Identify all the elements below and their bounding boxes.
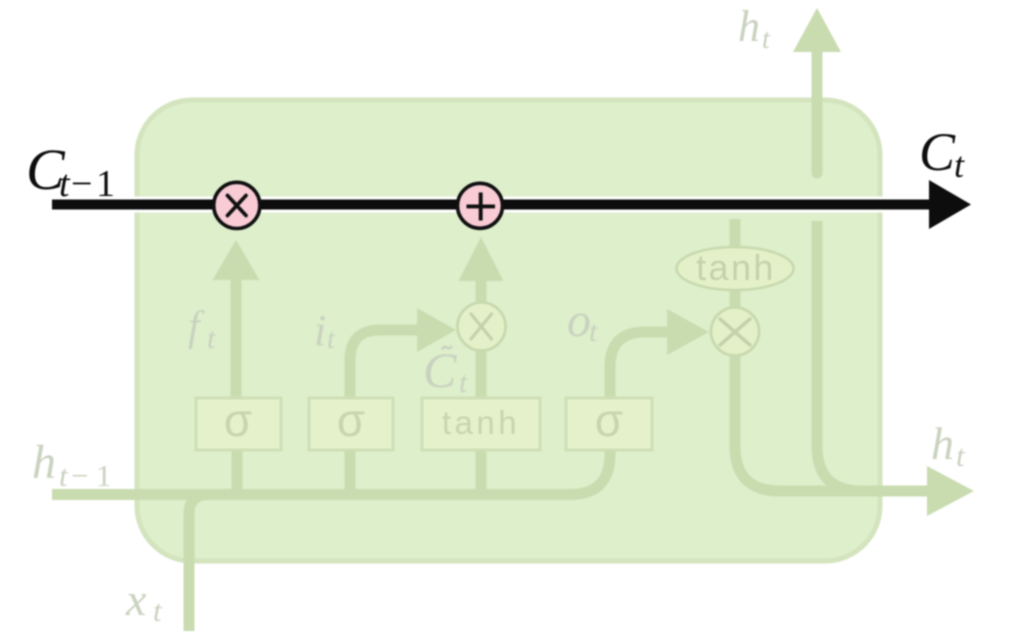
svg-text:t: t	[762, 24, 771, 55]
svg-text:σ: σ	[595, 394, 623, 446]
svg-text:i: i	[314, 306, 326, 355]
svg-text:tanh: tanh	[696, 247, 776, 288]
svg-text:h: h	[32, 436, 56, 489]
svg-text:t: t	[954, 145, 965, 185]
svg-text:t: t	[59, 458, 69, 493]
svg-text:1: 1	[96, 163, 115, 205]
svg-text:C: C	[423, 342, 457, 398]
svg-text:t: t	[956, 438, 966, 473]
svg-text:h: h	[931, 418, 954, 469]
svg-text:C: C	[919, 122, 956, 182]
svg-text:tanh: tanh	[442, 404, 520, 441]
svg-text:−: −	[71, 163, 92, 205]
svg-text:t: t	[207, 322, 216, 355]
svg-text:t: t	[327, 324, 336, 355]
svg-text:σ: σ	[337, 394, 365, 446]
svg-text:t: t	[153, 593, 163, 628]
svg-text:o: o	[567, 294, 591, 347]
svg-text:h: h	[738, 2, 760, 51]
svg-text:−: −	[71, 458, 88, 493]
svg-text:σ: σ	[224, 394, 252, 446]
svg-text:1: 1	[96, 458, 112, 493]
svg-text:t: t	[59, 163, 71, 205]
svg-text:x: x	[125, 574, 147, 625]
svg-text:t: t	[589, 315, 598, 348]
svg-text:t: t	[459, 366, 468, 399]
